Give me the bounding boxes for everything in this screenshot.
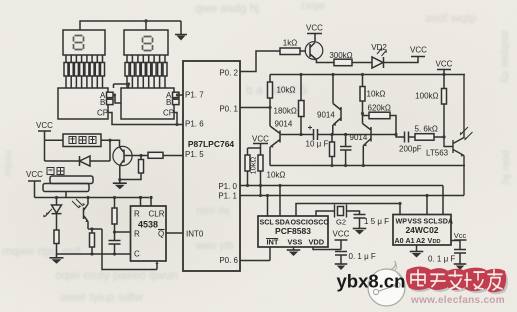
Vcc (24WC02) <box>454 240 467 250</box>
resistor R16 pull-up <box>248 148 261 155</box>
timer U4 4538 box <box>131 206 167 261</box>
capacitor C7 0.1uF <box>335 252 347 265</box>
OSCO wire to crystal <box>316 211 334 216</box>
wire P0.2 to R 1k <box>240 51 280 72</box>
resistor bank RN2 (8 resistors under DS2) <box>125 55 167 88</box>
turntable platter <box>50 176 93 184</box>
wire top rail of displays <box>80 21 181 30</box>
resistor R2 (LED) <box>56 214 58 230</box>
INT stub to P0.6 <box>240 247 270 261</box>
VCC symbol (relay) <box>38 131 51 140</box>
capacitor C3 10uF <box>301 129 332 140</box>
transistor Q4 (relay driver) <box>113 146 132 165</box>
driver U2 box <box>58 88 108 119</box>
capacitor C6 15uF <box>354 215 366 229</box>
display DS2 digit 8 <box>143 37 153 51</box>
resistor R10 180k <box>300 75 302 101</box>
VCC (pull-ups) <box>253 144 268 149</box>
resistor R15 100k <box>443 75 445 89</box>
phototransistor VT1 <box>84 198 89 230</box>
VDD wire to VCC <box>313 247 341 250</box>
red char blobs <box>406 266 506 292</box>
relay K1 box <box>63 134 101 147</box>
capacitor C5 200pF <box>396 132 415 143</box>
OSCI wire to WP <box>296 204 400 217</box>
base wire Q1 <box>280 134 301 136</box>
resistor R9 10k <box>269 75 271 83</box>
WP node dot <box>398 202 401 205</box>
RTC U5 PCF8583 box <box>258 216 328 247</box>
display DS2 <box>124 30 168 55</box>
diode VD1 (flyback) <box>45 140 111 161</box>
ground (A0 A1 A2) <box>416 245 418 252</box>
capacitor C4 <box>340 135 352 166</box>
node junction above display DS2 <box>144 19 147 22</box>
transistor Q1 9014 <box>270 126 280 166</box>
resistor R6 (base pulldown) <box>139 160 144 174</box>
wire 4538 top to rail A <box>141 198 152 207</box>
ground (C7) <box>335 264 348 270</box>
SCL stub <box>426 196 428 215</box>
swoosh ellipse <box>368 261 405 306</box>
rail P1.1 <box>240 195 464 197</box>
resistor R11 (Q2 emitter) <box>331 135 333 143</box>
rail C (emitter rail) <box>270 165 465 167</box>
SDA stub <box>279 186 281 217</box>
capacitor C1 <box>109 232 121 254</box>
gray shadow blobs <box>409 270 508 294</box>
wire VCC to relay to node <box>45 139 111 141</box>
phototransistor LT563 <box>444 75 464 196</box>
VCC symbol (opto row) <box>28 181 41 198</box>
display DS1 <box>63 30 105 55</box>
white glyph strokes <box>411 270 502 290</box>
label 转盘 <box>47 168 64 175</box>
resistor R7 1k <box>280 48 300 55</box>
trigger arrowhead into 4538 <box>155 261 158 264</box>
VCC (VD2) <box>411 56 425 58</box>
transistor Q2 9014 <box>333 75 341 135</box>
base line to Q3 <box>332 134 396 136</box>
node relay-collector <box>108 139 111 142</box>
SCL stub <box>267 196 269 217</box>
overline Q <box>158 229 165 231</box>
LED VD3 (emitter) <box>56 198 58 206</box>
MCU U1 P87LPC764 box <box>183 61 240 271</box>
resistor bank RN1 (8 resistors under DS1) <box>64 55 105 88</box>
wire U2.CP + U3.CP to P1.6 <box>108 113 183 125</box>
crystal G2 <box>335 205 347 218</box>
faint bleed-through noise <box>425 11 476 25</box>
rail P1.0 <box>240 185 443 187</box>
ground (C6) <box>353 229 367 235</box>
resistor R12 10k <box>362 75 364 87</box>
ground top-right of displays <box>175 30 187 41</box>
resistor R14 5.6k <box>415 134 434 141</box>
ground (Q4 emitter) <box>113 180 127 190</box>
resistor R5 (base, to P1.5) <box>148 152 163 158</box>
transistor Q5 <box>305 42 323 60</box>
wire R4 to 4538 R pin <box>115 231 131 233</box>
VCC (right) <box>437 70 451 75</box>
VCC (Q5) <box>307 34 322 43</box>
display DS1 digit 8 <box>74 36 84 50</box>
EEPROM U6 24WC02 box <box>393 215 451 246</box>
wire between banks <box>114 84 129 88</box>
wire 4538 Q to INT0 <box>166 232 183 234</box>
ground (C8) <box>454 264 467 270</box>
wire node to transistor collector <box>110 140 120 146</box>
VDD wire to Vcc <box>451 240 460 242</box>
ground rail (bottom left) <box>57 253 131 255</box>
resistor R8 300k <box>334 59 352 65</box>
resistor R3 (PT emitter) <box>91 229 93 233</box>
label 继电器 (relay) <box>69 137 96 144</box>
pin pads U3 <box>173 92 180 97</box>
elecfans red logo <box>406 266 508 294</box>
rail A (opto supply) <box>35 197 150 199</box>
pin pads U2 <box>107 92 114 97</box>
wire U2.A to U3.B <box>113 95 121 103</box>
wire PT emitter node <box>88 229 157 270</box>
resistor R4 (to 4538 R) <box>114 198 116 209</box>
ground (VSS) <box>293 247 295 250</box>
ground GND1 <box>50 254 64 264</box>
wire P0.1 to Q1 collector <box>240 107 270 109</box>
capacitor C8 <box>454 250 466 265</box>
wire U3.A to P1.7 <box>179 94 183 96</box>
LED VD2 <box>372 57 384 68</box>
VCC (PCF8583) <box>335 240 348 250</box>
base wire Q4 to R (P1.5) <box>124 155 141 157</box>
resistor R13 620k <box>363 115 370 117</box>
transistor Q3 9014 <box>363 114 372 166</box>
resistor R17 pull-up <box>260 148 262 155</box>
SDA stub (rail P1.0 corner) <box>442 186 444 215</box>
driver U3 box <box>121 88 174 119</box>
rail B <box>270 74 465 76</box>
